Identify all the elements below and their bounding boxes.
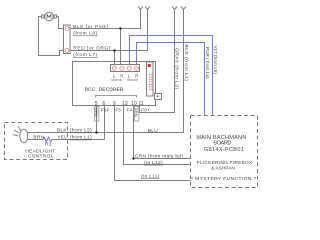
svg-text:F4: F4 [127,107,133,112]
svg-text:6: 6 [102,101,105,107]
svg-text:(to L12): (to L12) [144,160,163,166]
svg-text:F0F: F0F [101,107,110,112]
svg-text:& ASHPAN: & ASHPAN [211,165,235,171]
svg-text:G814X-PCB01: G814X-PCB01 [204,147,244,153]
svg-text:RED [or ORG]: RED [or ORG] [73,45,110,51]
svg-text:(from L1): (from L1) [70,135,92,141]
svg-text:BOARD: BOARD [213,141,231,147]
svg-text:MOTOR: MOTOR [112,78,122,82]
svg-text:(from L7): (from L7) [73,52,97,58]
svg-text:(from L8): (from L8) [73,31,97,37]
svg-text:(from L3): (from L3) [70,128,92,134]
svg-text:BRN: BRN [33,135,44,141]
svg-text:BLK (from L1): BLK (from L1) [183,45,189,82]
svg-text:ORG: ORG [94,108,99,117]
svg-text:HEADLIGHT: HEADLIGHT [25,148,55,154]
svg-text:10: 10 [131,101,137,107]
svg-text:5: 5 [95,101,98,107]
svg-text:13: 13 [122,101,128,107]
svg-text:GRAY (from L2): GRAY (from L2) [174,48,180,90]
svg-text:F0+: F0+ [141,107,150,112]
svg-text:CONTROL: CONTROL [28,154,54,160]
svg-text:PICKUP: PICKUP [128,78,139,82]
svg-text:FLICKERING FIREBOX: FLICKERING FIREBOX [197,160,253,166]
svg-text:11: 11 [139,101,144,107]
svg-text:PUR ( from L6): PUR ( from L6) [205,47,210,79]
svg-text:(to L11): (to L11) [141,173,160,179]
svg-text:VLT (from L5): VLT (from L5) [213,46,218,75]
svg-text:BLU: BLU [148,128,158,134]
svg-text:GRN (from male bd): GRN (from male bd) [135,154,184,160]
svg-text:R1: R1 [45,141,52,147]
svg-text:DCC DECODER: DCC DECODER [85,86,124,93]
svg-text:BLK [or Pink]: BLK [or Pink] [73,24,108,30]
svg-text:F5: F5 [115,107,121,112]
svg-text:YEL: YEL [57,135,67,141]
svg-text:BLK: BLK [57,128,67,134]
svg-text:9: 9 [113,101,116,107]
svg-text:GRN: GRN [134,108,139,117]
svg-text:? MYSTERY FUNCTION ?: ? MYSTERY FUNCTION ? [190,176,256,182]
